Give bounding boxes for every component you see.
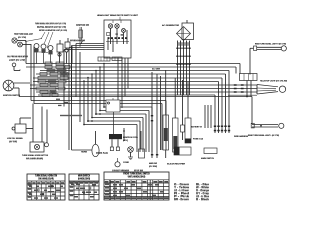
- svg-text:REAR TURN SIGNAL LIGHT R (6V 1: REAR TURN SIGNAL LIGHT R (6V 17W): [255, 43, 286, 46]
- svg-text:TURN SIGNAL HORN BUTTON: TURN SIGNAL HORN BUTTON: [22, 154, 48, 157]
- svg-text:AC GENERATOR: AC GENERATOR: [162, 24, 179, 27]
- svg-text:FRONT TURN SIGNAL SWITCH: FRONT TURN SIGNAL SWITCH: [123, 173, 150, 176]
- svg-text:IGNITION SWITCH: IGNITION SWITCH: [3, 95, 20, 97]
- svg-text:(6V): (6V): [123, 140, 129, 142]
- svg-text:IGNITION SW: IGNITION SW: [76, 25, 89, 27]
- svg-text:UNIT (HANDLEBAR): UNIT (HANDLEBAR): [128, 176, 146, 179]
- svg-text:W - White: W - White: [196, 186, 210, 189]
- svg-text:(HANDLEBAR): (HANDLEBAR): [78, 178, 90, 181]
- svg-text:COND: COND: [123, 162, 130, 164]
- svg-text:LB - Lt Blue: LB - Lt Blue: [196, 195, 210, 198]
- svg-text:FRONT TURN SIGNAL LIGHT: FRONT TURN SIGNAL LIGHT: [14, 33, 33, 36]
- svg-text:GY - Gray: GY - Gray: [196, 193, 210, 195]
- svg-text:LIGHT (6V 1.7W): LIGHT (6V 1.7W): [9, 60, 25, 62]
- svg-text:TURN SIGNAL HORN BTN: TURN SIGNAL HORN BTN: [35, 175, 57, 178]
- svg-text:SILICON RECTIFIER: SILICON RECTIFIER: [167, 164, 185, 166]
- svg-text:MAIN SWITCH: MAIN SWITCH: [201, 157, 214, 160]
- svg-text:MAIN SW: MAIN SW: [149, 162, 157, 165]
- svg-text:(6V 35W): (6V 35W): [149, 166, 157, 168]
- svg-text:NEUTRAL INDICATOR LIGHT (6V 1.: NEUTRAL INDICATOR LIGHT (6V 1.7W): [37, 26, 66, 29]
- svg-text:HEADLIGHT BEAM DISTR SWITCH UN: HEADLIGHT BEAM DISTR SWITCH UNIT: [97, 14, 139, 17]
- svg-text:MAIN SWITCH: MAIN SWITCH: [78, 175, 90, 178]
- svg-text:AC GEN: AC GEN: [152, 68, 160, 71]
- svg-text:LG - Lt Green: LG - Lt Green: [174, 189, 190, 192]
- svg-text:OIL PRESS INDICATOR: OIL PRESS INDICATOR: [7, 55, 28, 58]
- svg-text:METER ILLUMINATION LIGHT (6V 1: METER ILLUMINATION LIGHT (6V 1.5W): [39, 29, 67, 32]
- svg-text:(6V 3W): (6V 3W): [9, 141, 17, 143]
- svg-text:O - Orange: O - Orange: [196, 190, 210, 192]
- svg-text:BR - Brown: BR - Brown: [174, 199, 190, 201]
- svg-text:IGNITION COIL: IGNITION COIL: [123, 137, 139, 139]
- svg-text:B - Black: B - Black: [196, 199, 210, 201]
- svg-text:SPARK PLUG: SPARK PLUG: [96, 152, 108, 155]
- svg-text:SW (HANDLEBAR): SW (HANDLEBAR): [26, 157, 43, 160]
- svg-text:HORN: HORN: [81, 152, 87, 154]
- svg-text:Y - Yellow: Y - Yellow: [174, 187, 189, 189]
- svg-text:BL - Blue: BL - Blue: [196, 184, 210, 186]
- svg-text:SW (HANDLEBAR): SW (HANDLEBAR): [38, 178, 54, 181]
- svg-text:(6V 17W): (6V 17W): [18, 37, 26, 39]
- svg-text:WIRE HARNESS: WIRE HARNESS: [234, 135, 249, 138]
- svg-text:G - Green: G - Green: [174, 184, 190, 186]
- svg-text:TAIL/STOP LIGHT (6V 17/5.3W): TAIL/STOP LIGHT (6V 17/5.3W): [260, 80, 287, 83]
- svg-text:FUSE 15A: FUSE 15A: [193, 138, 203, 141]
- svg-text:LOW OIL SIGNAL: LOW OIL SIGNAL: [7, 137, 24, 140]
- svg-text:REAR TURN SIGNAL LIGHT L (6V 1: REAR TURN SIGNAL LIGHT L (6V 17W): [248, 134, 279, 137]
- svg-text:BATTERY 6V: BATTERY 6V: [191, 126, 203, 129]
- svg-text:TURN SIGNAL INDICATOR LIGHT (6: TURN SIGNAL INDICATOR LIGHT (6V 1.7W): [35, 22, 66, 25]
- svg-text:P - Pink: P - Pink: [174, 196, 190, 198]
- svg-text:R - Red: R - Red: [174, 193, 190, 195]
